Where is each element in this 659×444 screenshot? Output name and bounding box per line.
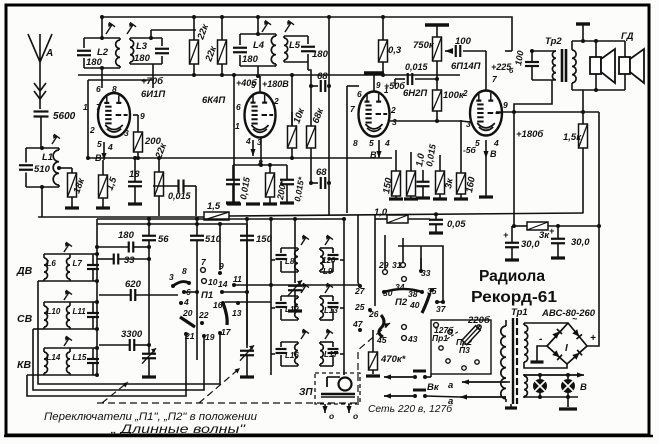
resistor 22k bbox=[193, 17, 195, 40]
switch Vk bbox=[413, 370, 426, 373]
coil L1 tank 510 bbox=[26, 147, 59, 149]
wire bbox=[496, 112, 502, 113]
svg-text:2: 2 bbox=[89, 125, 95, 135]
svg-text:180: 180 bbox=[118, 230, 135, 241]
wire screen bus +70V bbox=[78, 74, 460, 76]
resistor 1.5k bbox=[579, 124, 588, 148]
wire anode bbox=[259, 76, 261, 92]
variable capacitor osc bbox=[294, 219, 296, 283]
coil L4 tank 180 bbox=[240, 33, 276, 35]
resistor 68k bbox=[310, 86, 312, 126]
wire loop 1 bbox=[38, 281, 220, 384]
svg-text:20: 20 bbox=[182, 308, 193, 318]
svg-text:0,015: 0,015 bbox=[168, 191, 192, 201]
resistor 470k* bbox=[372, 330, 374, 352]
wire bbox=[93, 301, 97, 303]
transformer Tr2 secondary bbox=[572, 50, 576, 83]
svg-text:+: + bbox=[590, 333, 596, 344]
trimmer arrow L4 bbox=[262, 23, 268, 32]
ground tube2 cathode bbox=[246, 202, 260, 205]
ground bbox=[433, 197, 447, 200]
svg-text:4: 4 bbox=[183, 297, 189, 307]
svg-text:1,0: 1,0 bbox=[374, 207, 388, 218]
svg-text:6П14П: 6П14П bbox=[451, 61, 481, 72]
capacitor 510 lower bbox=[190, 235, 204, 237]
svg-text:180: 180 bbox=[134, 53, 151, 64]
svg-text:о: о bbox=[329, 411, 334, 421]
lamp 2 bbox=[561, 379, 575, 393]
tube U4 6P14P bbox=[470, 91, 502, 136]
lamp 1 bbox=[533, 379, 547, 393]
resistor 150 bbox=[392, 171, 401, 196]
svg-text:33: 33 bbox=[421, 268, 431, 278]
coil L15 bbox=[69, 348, 71, 352]
trimmer arrow bbox=[301, 237, 306, 245]
arrows to transformer bbox=[462, 381, 506, 383]
svg-text:40: 40 bbox=[409, 300, 420, 310]
svg-text:3: 3 bbox=[392, 117, 397, 127]
svg-text:10: 10 bbox=[208, 277, 218, 287]
variable capacitor KV bbox=[142, 353, 156, 355]
wire bbox=[257, 17, 259, 34]
svg-text:0,05: 0,05 bbox=[447, 219, 466, 230]
wire loop 3 bbox=[27, 334, 186, 396]
wire AGC bus bbox=[88, 157, 392, 159]
svg-text:а: а bbox=[448, 380, 453, 391]
svg-text:2: 2 bbox=[273, 96, 279, 106]
resistor 1.0 horizontal bbox=[387, 215, 408, 223]
wire bbox=[38, 280, 44, 282]
svg-text:68: 68 bbox=[316, 167, 327, 178]
capacitor 0.015 cathode bbox=[226, 179, 240, 181]
open circles bbox=[402, 325, 407, 330]
wire bbox=[44, 301, 70, 303]
ground bbox=[531, 360, 544, 363]
svg-text:30,0: 30,0 bbox=[521, 239, 540, 250]
ground bbox=[389, 197, 403, 200]
svg-text:0,3: 0,3 bbox=[388, 45, 402, 56]
svg-text:17: 17 bbox=[221, 327, 232, 337]
svg-text:П3: П3 bbox=[459, 345, 470, 355]
wire bbox=[271, 307, 275, 309]
diode 2 bbox=[572, 329, 582, 339]
svg-text:19: 19 bbox=[205, 332, 215, 342]
wire lower bus bbox=[97, 218, 344, 220]
wire L2 to tube grid bbox=[101, 68, 103, 88]
svg-text:L7: L7 bbox=[73, 259, 83, 268]
variable capacitor second bbox=[246, 345, 248, 348]
antenna A bbox=[28, 34, 40, 62]
tube box bbox=[88, 80, 153, 88]
trimmer arrow bbox=[64, 244, 69, 252]
coil L8 tank bbox=[281, 247, 298, 249]
diode 3 bbox=[552, 350, 562, 360]
svg-text:В: В bbox=[95, 153, 102, 163]
ground bbox=[551, 256, 565, 259]
wire mains to transformer bbox=[506, 381, 510, 383]
contact 43 bbox=[402, 336, 407, 341]
wire bbox=[328, 17, 330, 86]
ground bbox=[142, 375, 156, 378]
wire speaker loop bbox=[572, 40, 625, 42]
svg-text:16: 16 bbox=[213, 300, 223, 310]
svg-text:30,0: 30,0 bbox=[571, 237, 590, 248]
trimmer arrow bbox=[301, 331, 306, 339]
svg-text:470к*: 470к* bbox=[380, 354, 407, 365]
svg-text:В: В bbox=[370, 150, 377, 160]
svg-text:2: 2 bbox=[462, 89, 468, 98]
ground bbox=[454, 197, 468, 200]
svg-text:22: 22 bbox=[198, 310, 209, 320]
dashed pointer left bbox=[102, 382, 128, 403]
svg-text:510: 510 bbox=[34, 164, 51, 175]
svg-text:6: 6 bbox=[96, 84, 101, 94]
svg-text:4: 4 bbox=[493, 138, 499, 148]
svg-text:ДВ: ДВ bbox=[16, 265, 33, 277]
capacitor 0.015 cathode bbox=[417, 181, 430, 183]
resistor 200 bbox=[134, 132, 143, 152]
svg-text:29: 29 bbox=[378, 260, 389, 270]
ground bbox=[288, 309, 302, 312]
wire grid plate bbox=[389, 120, 461, 122]
pickup symbol bbox=[339, 378, 352, 391]
svg-text:L3: L3 bbox=[136, 41, 148, 52]
resistor 160 bbox=[457, 173, 466, 194]
svg-text:Пр1: Пр1 bbox=[432, 333, 448, 343]
wire bbox=[93, 253, 97, 255]
svg-text:Переключатели „П1", „П2" в: Переключатели „П1", „П2" в положении bbox=[44, 411, 257, 423]
svg-text:СВ: СВ bbox=[17, 313, 33, 325]
ground bbox=[505, 258, 519, 261]
coil tank bbox=[320, 341, 333, 343]
wire bbox=[41, 187, 43, 217]
resistor 18k bbox=[57, 166, 61, 170]
tube box bbox=[346, 86, 348, 213]
svg-text:Радиола: Радиола bbox=[479, 268, 545, 285]
svg-text:37: 37 bbox=[436, 304, 447, 314]
ground Tr1 bbox=[510, 404, 512, 407]
wire loop 2 bbox=[33, 329, 204, 390]
svg-text:L6: L6 bbox=[47, 259, 57, 268]
ground bbox=[567, 397, 569, 407]
capacitor 0.05 bbox=[429, 219, 443, 221]
svg-text:1: 1 bbox=[83, 102, 88, 112]
cathode arrow B bbox=[103, 142, 105, 160]
wire bbox=[222, 291, 247, 293]
ground bbox=[96, 206, 110, 209]
wire bridge plus bbox=[587, 226, 599, 346]
svg-text:4: 4 bbox=[107, 142, 113, 152]
coil L11 bbox=[69, 302, 71, 306]
svg-text:ГД: ГД bbox=[621, 31, 634, 42]
ground bbox=[416, 196, 430, 199]
wire bbox=[150, 30, 152, 38]
wire bbox=[133, 114, 138, 116]
svg-text:33: 33 bbox=[124, 255, 135, 266]
svg-text:4: 4 bbox=[384, 138, 390, 148]
coil tank bbox=[320, 247, 333, 249]
wire bbox=[257, 66, 259, 76]
dashed pointer right bbox=[358, 323, 390, 403]
svg-text:+: + bbox=[549, 226, 555, 236]
ground bbox=[128, 202, 142, 205]
wire bbox=[101, 17, 103, 38]
selector contacts bbox=[439, 346, 443, 350]
svg-text:5: 5 bbox=[369, 138, 374, 148]
transformer Tr2 core bbox=[561, 49, 564, 82]
svg-text:L17: L17 bbox=[324, 350, 338, 359]
svg-text:КВ: КВ bbox=[17, 359, 31, 371]
svg-text:4: 4 bbox=[245, 136, 251, 146]
cathode arrow bbox=[252, 140, 254, 156]
coil L16 tank bbox=[281, 341, 298, 343]
svg-text:11: 11 bbox=[233, 274, 242, 284]
wire bbox=[44, 347, 70, 349]
wire bbox=[271, 353, 275, 355]
coil L14 bbox=[43, 348, 45, 352]
resistor 100k bbox=[433, 90, 442, 111]
svg-text:5600: 5600 bbox=[53, 111, 76, 122]
svg-text:56: 56 bbox=[158, 234, 169, 245]
wire cathode bottom bbox=[260, 137, 262, 165]
resistor 200* bbox=[266, 173, 275, 197]
pickup ZP dashed box bbox=[315, 373, 360, 404]
svg-text:150: 150 bbox=[256, 234, 273, 245]
svg-text:0,015: 0,015 bbox=[405, 62, 429, 72]
svg-text:В: В bbox=[490, 149, 497, 159]
svg-text:8: 8 bbox=[353, 138, 358, 148]
wire bbox=[33, 328, 44, 330]
trimmer arrow L2 bbox=[106, 25, 112, 34]
svg-text:9: 9 bbox=[376, 81, 381, 90]
resistor 1.0 bbox=[407, 171, 416, 196]
selector box bbox=[431, 320, 491, 374]
capacitor 5600 bbox=[34, 110, 49, 112]
heater wiring bbox=[524, 374, 584, 376]
switch P1 contacts bbox=[196, 345, 198, 360]
trimmer capacitor bbox=[87, 312, 99, 314]
fuse bbox=[460, 323, 482, 346]
svg-text:1: 1 bbox=[235, 121, 240, 131]
trimmer capacitor bbox=[87, 358, 99, 360]
svg-text:-5б: -5б bbox=[463, 145, 477, 155]
wire Tr2 primary return bbox=[514, 80, 552, 226]
svg-text:L16: L16 bbox=[285, 351, 299, 360]
svg-text:8: 8 bbox=[182, 266, 187, 276]
svg-text:620: 620 bbox=[125, 279, 142, 290]
svg-text:3: 3 bbox=[169, 272, 174, 282]
svg-text:+70б: +70б bbox=[141, 76, 164, 87]
capacitor 150 lower bbox=[240, 235, 254, 237]
svg-text:I: I bbox=[565, 343, 568, 354]
resistor 3k bbox=[436, 171, 445, 194]
svg-text:5: 5 bbox=[97, 139, 102, 149]
mains arrows left bbox=[384, 376, 413, 378]
wire bbox=[271, 259, 275, 261]
ground bbox=[227, 202, 241, 205]
trimmer arrow bbox=[301, 285, 306, 293]
coil L7 bbox=[69, 254, 71, 258]
svg-text:6: 6 bbox=[236, 102, 241, 112]
svg-text:1,5к: 1,5к bbox=[563, 132, 582, 143]
svg-text:о: о bbox=[353, 411, 358, 421]
svg-text:180: 180 bbox=[242, 54, 259, 65]
svg-text:43: 43 bbox=[407, 334, 418, 344]
svg-text:П1: П1 bbox=[201, 290, 213, 301]
svg-text:+180В: +180В bbox=[262, 79, 289, 89]
wire bbox=[93, 347, 97, 349]
wire IF verticals bbox=[270, 219, 272, 375]
trimmer capacitor bbox=[87, 264, 99, 266]
svg-text:L4: L4 bbox=[253, 40, 265, 51]
resistor 22k second bbox=[221, 17, 223, 40]
wire bbox=[398, 246, 443, 302]
svg-text:25: 25 bbox=[354, 302, 365, 312]
svg-text:8: 8 bbox=[112, 84, 117, 94]
diode 4 bbox=[572, 350, 582, 360]
ground bbox=[263, 202, 277, 205]
resistor 1.5 bbox=[99, 175, 108, 198]
tube U2 6K4P bbox=[245, 93, 276, 138]
filter line bbox=[514, 225, 527, 227]
svg-text:А: А bbox=[45, 48, 53, 59]
svg-text:6: 6 bbox=[357, 89, 362, 99]
svg-text:100: 100 bbox=[455, 36, 472, 47]
wire bridge bbox=[524, 322, 568, 324]
svg-text:45: 45 bbox=[376, 335, 387, 345]
svg-text:2: 2 bbox=[390, 105, 396, 115]
svg-text:L11: L11 bbox=[73, 307, 87, 316]
ground bbox=[280, 201, 294, 204]
tube U1 6I1P bbox=[98, 93, 130, 137]
diode 1 bbox=[552, 329, 562, 339]
wire bottom bus bbox=[38, 216, 204, 218]
svg-text:Вк: Вк bbox=[427, 382, 440, 393]
speaker GD 1 bbox=[590, 57, 601, 74]
cathode arrow B bbox=[485, 140, 487, 158]
ground bbox=[226, 201, 240, 204]
wire bbox=[27, 374, 44, 376]
svg-text:L1: L1 bbox=[42, 152, 53, 163]
svg-text:L15: L15 bbox=[73, 353, 87, 362]
svg-text:L9: L9 bbox=[323, 267, 333, 276]
coil L12 tank bbox=[281, 295, 298, 297]
coil L5 tank 180 bbox=[284, 35, 308, 37]
capacitor 33 bbox=[113, 254, 115, 265]
wire bbox=[505, 50, 512, 52]
svg-text:6Н2П: 6Н2П bbox=[403, 88, 427, 99]
tube box bbox=[233, 75, 235, 202]
coil L6 bbox=[43, 254, 45, 258]
svg-text:Рекорд-61: Рекорд-61 bbox=[471, 289, 557, 306]
svg-text:47: 47 bbox=[352, 319, 364, 329]
svg-text:6К4П: 6К4П bbox=[202, 95, 225, 106]
resistor 10k bbox=[291, 112, 293, 126]
svg-text:120: 120 bbox=[322, 256, 336, 265]
capacitor 56 bbox=[142, 235, 156, 237]
svg-text:750к: 750к bbox=[413, 40, 435, 51]
resistor 3k filter bbox=[527, 222, 548, 230]
coil L3 tank 180 bbox=[130, 37, 162, 39]
svg-text:В: В bbox=[580, 382, 587, 393]
svg-text:L5: L5 bbox=[289, 40, 301, 51]
svg-text:5: 5 bbox=[251, 81, 256, 90]
svg-text:100к: 100к bbox=[443, 90, 465, 101]
svg-text:+180б: +180б bbox=[516, 129, 544, 140]
trimmer arrow L1 bbox=[52, 136, 57, 144]
ground bbox=[479, 195, 493, 198]
svg-text:14: 14 bbox=[218, 279, 228, 289]
svg-text:L14: L14 bbox=[47, 353, 61, 362]
svg-text:3: 3 bbox=[124, 128, 129, 138]
svg-text:9: 9 bbox=[140, 111, 145, 121]
coil L2 tank 180 bbox=[84, 37, 120, 39]
svg-text:1,5: 1,5 bbox=[207, 201, 221, 212]
svg-text:Тр1: Тр1 bbox=[511, 307, 528, 318]
contact 10 bbox=[202, 279, 207, 284]
svg-text:П2: П2 bbox=[395, 297, 408, 308]
coil tank bbox=[320, 295, 333, 297]
ground bbox=[429, 231, 443, 234]
ground bbox=[65, 206, 79, 209]
transformer Tr1 heater secondary bbox=[523, 374, 525, 376]
dashed pointer line bbox=[97, 402, 358, 404]
transformer Tr1 HV secondary bbox=[523, 323, 525, 325]
svg-text:~: ~ bbox=[572, 314, 578, 324]
ground bbox=[366, 374, 380, 377]
resistor 750k bbox=[425, 23, 449, 26]
wire B+ top bus bbox=[102, 17, 512, 51]
wire bbox=[307, 62, 309, 70]
anode top bar bbox=[364, 71, 384, 74]
svg-text:L13: L13 bbox=[324, 306, 338, 315]
wire plate supply bbox=[496, 111, 599, 113]
svg-text:б: б bbox=[509, 67, 514, 75]
transformer Tr1 primary bbox=[505, 320, 507, 326]
coil L10 bbox=[43, 302, 45, 306]
wire bbox=[582, 90, 584, 124]
cathode arrow B bbox=[378, 140, 380, 158]
wire bbox=[44, 253, 70, 255]
svg-text:„ Длинные волны": „ Длинные волны" bbox=[110, 424, 247, 436]
svg-text:180: 180 bbox=[86, 57, 103, 68]
ground bbox=[240, 375, 254, 378]
svg-text:1: 1 bbox=[384, 86, 389, 95]
svg-text:АВС-80-260: АВС-80-260 bbox=[541, 308, 596, 319]
ground bbox=[404, 197, 418, 200]
svg-text:Сеть 220 в, 127б: Сеть 220 в, 127б bbox=[368, 403, 453, 415]
svg-text:180: 180 bbox=[312, 49, 329, 60]
svg-text:6И1П: 6И1П bbox=[141, 89, 165, 100]
svg-text:9: 9 bbox=[503, 100, 508, 110]
svg-text:13: 13 bbox=[232, 308, 242, 318]
resistor 22k cathode bbox=[155, 172, 164, 196]
tube U3 6N2P bbox=[359, 92, 390, 137]
arrow outputs bbox=[324, 404, 326, 413]
resistor 1.5 horizontal bbox=[204, 212, 229, 220]
resistor 0.3 bbox=[382, 17, 384, 40]
svg-text:L8: L8 bbox=[285, 257, 295, 266]
chassis T bbox=[576, 22, 590, 25]
svg-text:3300: 3300 bbox=[121, 329, 143, 340]
capacitor 0.015 bbox=[177, 180, 179, 193]
svg-text:3: 3 bbox=[466, 119, 471, 129]
svg-text:68: 68 bbox=[317, 71, 328, 82]
svg-text:Тр2: Тр2 bbox=[545, 36, 562, 47]
trimmer arrow bbox=[64, 292, 69, 300]
svg-text:L10: L10 bbox=[47, 307, 61, 316]
svg-text:ЗП: ЗП bbox=[299, 387, 313, 398]
